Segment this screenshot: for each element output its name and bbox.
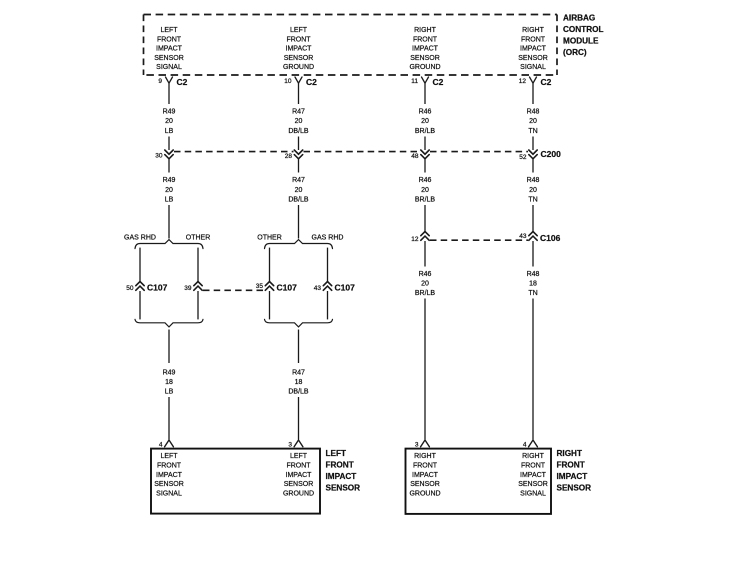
svg-text:R48: R48 bbox=[527, 177, 540, 184]
svg-text:IMPACT: IMPACT bbox=[412, 46, 439, 53]
svg-text:OTHER: OTHER bbox=[186, 235, 211, 242]
svg-text:R48: R48 bbox=[527, 108, 540, 115]
svg-text:RIGHT: RIGHT bbox=[522, 27, 545, 34]
svg-text:AIRBAG: AIRBAG bbox=[563, 14, 595, 23]
svg-text:R49: R49 bbox=[163, 369, 176, 376]
svg-text:IMPACT: IMPACT bbox=[412, 472, 439, 479]
svg-text:SIGNAL: SIGNAL bbox=[520, 64, 546, 71]
svg-text:FRONT: FRONT bbox=[521, 463, 546, 470]
svg-text:OTHER: OTHER bbox=[257, 235, 282, 242]
svg-text:R46: R46 bbox=[419, 177, 432, 184]
svg-text:12: 12 bbox=[411, 236, 419, 243]
svg-text:30: 30 bbox=[155, 152, 163, 159]
svg-text:20: 20 bbox=[529, 118, 537, 125]
svg-text:BR/LB: BR/LB bbox=[415, 128, 436, 135]
svg-text:43: 43 bbox=[519, 233, 527, 240]
svg-text:TN: TN bbox=[528, 128, 537, 135]
svg-text:RIGHT: RIGHT bbox=[414, 27, 437, 34]
svg-text:RIGHT: RIGHT bbox=[522, 453, 545, 460]
svg-text:RIGHT: RIGHT bbox=[557, 449, 582, 458]
svg-text:LEFT: LEFT bbox=[290, 453, 308, 460]
svg-text:C2: C2 bbox=[306, 77, 317, 87]
svg-text:R49: R49 bbox=[163, 177, 176, 184]
svg-text:IMPACT: IMPACT bbox=[520, 46, 547, 53]
svg-text:IMPACT: IMPACT bbox=[286, 46, 313, 53]
svg-text:R47: R47 bbox=[292, 177, 305, 184]
svg-text:52: 52 bbox=[519, 154, 527, 161]
svg-text:C107: C107 bbox=[147, 283, 168, 293]
svg-text:SENSOR: SENSOR bbox=[410, 55, 440, 62]
svg-text:GAS RHD: GAS RHD bbox=[124, 235, 156, 242]
svg-text:SENSOR: SENSOR bbox=[154, 481, 184, 488]
svg-text:DB/LB: DB/LB bbox=[288, 197, 309, 204]
svg-text:SENSOR: SENSOR bbox=[518, 55, 548, 62]
svg-text:20: 20 bbox=[295, 187, 303, 194]
svg-text:BR/LB: BR/LB bbox=[415, 197, 436, 204]
svg-text:FRONT: FRONT bbox=[521, 36, 546, 43]
svg-text:SIGNAL: SIGNAL bbox=[156, 491, 182, 498]
svg-text:SENSOR: SENSOR bbox=[326, 484, 361, 493]
svg-text:(ORC): (ORC) bbox=[563, 48, 587, 57]
svg-text:LB: LB bbox=[165, 128, 174, 135]
svg-text:20: 20 bbox=[295, 118, 303, 125]
svg-text:GROUND: GROUND bbox=[409, 64, 440, 71]
svg-text:R46: R46 bbox=[419, 271, 432, 278]
svg-text:R47: R47 bbox=[292, 108, 305, 115]
svg-text:DB/LB: DB/LB bbox=[288, 128, 309, 135]
svg-text:FRONT: FRONT bbox=[413, 463, 438, 470]
svg-text:GAS RHD: GAS RHD bbox=[312, 235, 344, 242]
svg-text:48: 48 bbox=[411, 153, 419, 160]
svg-text:C106: C106 bbox=[540, 233, 561, 243]
svg-text:50: 50 bbox=[126, 285, 134, 292]
svg-text:FRONT: FRONT bbox=[557, 461, 585, 470]
svg-text:IMPACT: IMPACT bbox=[286, 472, 313, 479]
svg-text:39: 39 bbox=[184, 285, 192, 292]
svg-text:C107: C107 bbox=[335, 283, 356, 293]
svg-text:LB: LB bbox=[165, 197, 174, 204]
svg-text:C200: C200 bbox=[541, 149, 562, 159]
svg-text:12: 12 bbox=[519, 78, 527, 85]
svg-text:4: 4 bbox=[159, 441, 163, 448]
svg-text:20: 20 bbox=[421, 118, 429, 125]
svg-text:IMPACT: IMPACT bbox=[156, 472, 183, 479]
svg-text:20: 20 bbox=[165, 118, 173, 125]
svg-text:SIGNAL: SIGNAL bbox=[520, 491, 546, 498]
svg-text:9: 9 bbox=[158, 78, 162, 85]
svg-text:11: 11 bbox=[411, 78, 418, 85]
svg-text:FRONT: FRONT bbox=[157, 36, 182, 43]
svg-text:TN: TN bbox=[528, 197, 537, 204]
svg-text:BR/LB: BR/LB bbox=[415, 290, 436, 297]
svg-text:SENSOR: SENSOR bbox=[284, 55, 314, 62]
svg-text:18: 18 bbox=[529, 281, 537, 288]
svg-text:FRONT: FRONT bbox=[413, 36, 438, 43]
svg-text:20: 20 bbox=[421, 187, 429, 194]
svg-text:3: 3 bbox=[288, 441, 292, 448]
svg-text:GROUND: GROUND bbox=[409, 491, 440, 498]
svg-text:43: 43 bbox=[314, 285, 322, 292]
svg-text:3: 3 bbox=[415, 441, 419, 448]
svg-text:C2: C2 bbox=[541, 77, 552, 87]
svg-text:DB/LB: DB/LB bbox=[288, 389, 309, 396]
svg-text:IMPACT: IMPACT bbox=[326, 472, 357, 481]
svg-text:RIGHT: RIGHT bbox=[414, 453, 437, 460]
svg-text:SENSOR: SENSOR bbox=[154, 55, 184, 62]
svg-text:10: 10 bbox=[284, 78, 292, 85]
svg-text:GROUND: GROUND bbox=[283, 64, 314, 71]
svg-text:R48: R48 bbox=[527, 271, 540, 278]
svg-text:GROUND: GROUND bbox=[283, 491, 314, 498]
svg-text:SENSOR: SENSOR bbox=[557, 484, 592, 493]
svg-text:IMPACT: IMPACT bbox=[520, 472, 547, 479]
svg-text:C107: C107 bbox=[277, 283, 298, 293]
svg-text:R47: R47 bbox=[292, 369, 305, 376]
svg-text:TN: TN bbox=[528, 290, 537, 297]
svg-text:35: 35 bbox=[256, 283, 264, 290]
svg-text:28: 28 bbox=[285, 153, 293, 160]
svg-text:20: 20 bbox=[529, 187, 537, 194]
svg-text:FRONT: FRONT bbox=[157, 463, 182, 470]
svg-text:FRONT: FRONT bbox=[326, 461, 354, 470]
svg-text:MODULE: MODULE bbox=[563, 36, 599, 45]
svg-text:R49: R49 bbox=[163, 108, 176, 115]
svg-text:R46: R46 bbox=[419, 108, 432, 115]
svg-text:FRONT: FRONT bbox=[286, 463, 311, 470]
svg-text:LEFT: LEFT bbox=[290, 27, 308, 34]
svg-text:FRONT: FRONT bbox=[286, 36, 311, 43]
svg-text:LEFT: LEFT bbox=[160, 27, 178, 34]
svg-text:IMPACT: IMPACT bbox=[156, 46, 183, 53]
svg-text:LEFT: LEFT bbox=[160, 453, 178, 460]
svg-text:CONTROL: CONTROL bbox=[563, 25, 603, 34]
svg-text:18: 18 bbox=[165, 379, 173, 386]
svg-text:SENSOR: SENSOR bbox=[518, 481, 548, 488]
svg-text:IMPACT: IMPACT bbox=[557, 472, 588, 481]
svg-text:SIGNAL: SIGNAL bbox=[156, 64, 182, 71]
svg-text:20: 20 bbox=[421, 281, 429, 288]
svg-text:SENSOR: SENSOR bbox=[284, 481, 314, 488]
svg-text:LB: LB bbox=[165, 389, 174, 396]
svg-text:LEFT: LEFT bbox=[326, 449, 346, 458]
svg-text:C2: C2 bbox=[433, 77, 444, 87]
svg-text:SENSOR: SENSOR bbox=[410, 481, 440, 488]
svg-text:20: 20 bbox=[165, 187, 173, 194]
svg-text:C2: C2 bbox=[177, 77, 188, 87]
svg-text:4: 4 bbox=[523, 441, 527, 448]
svg-text:18: 18 bbox=[295, 379, 303, 386]
